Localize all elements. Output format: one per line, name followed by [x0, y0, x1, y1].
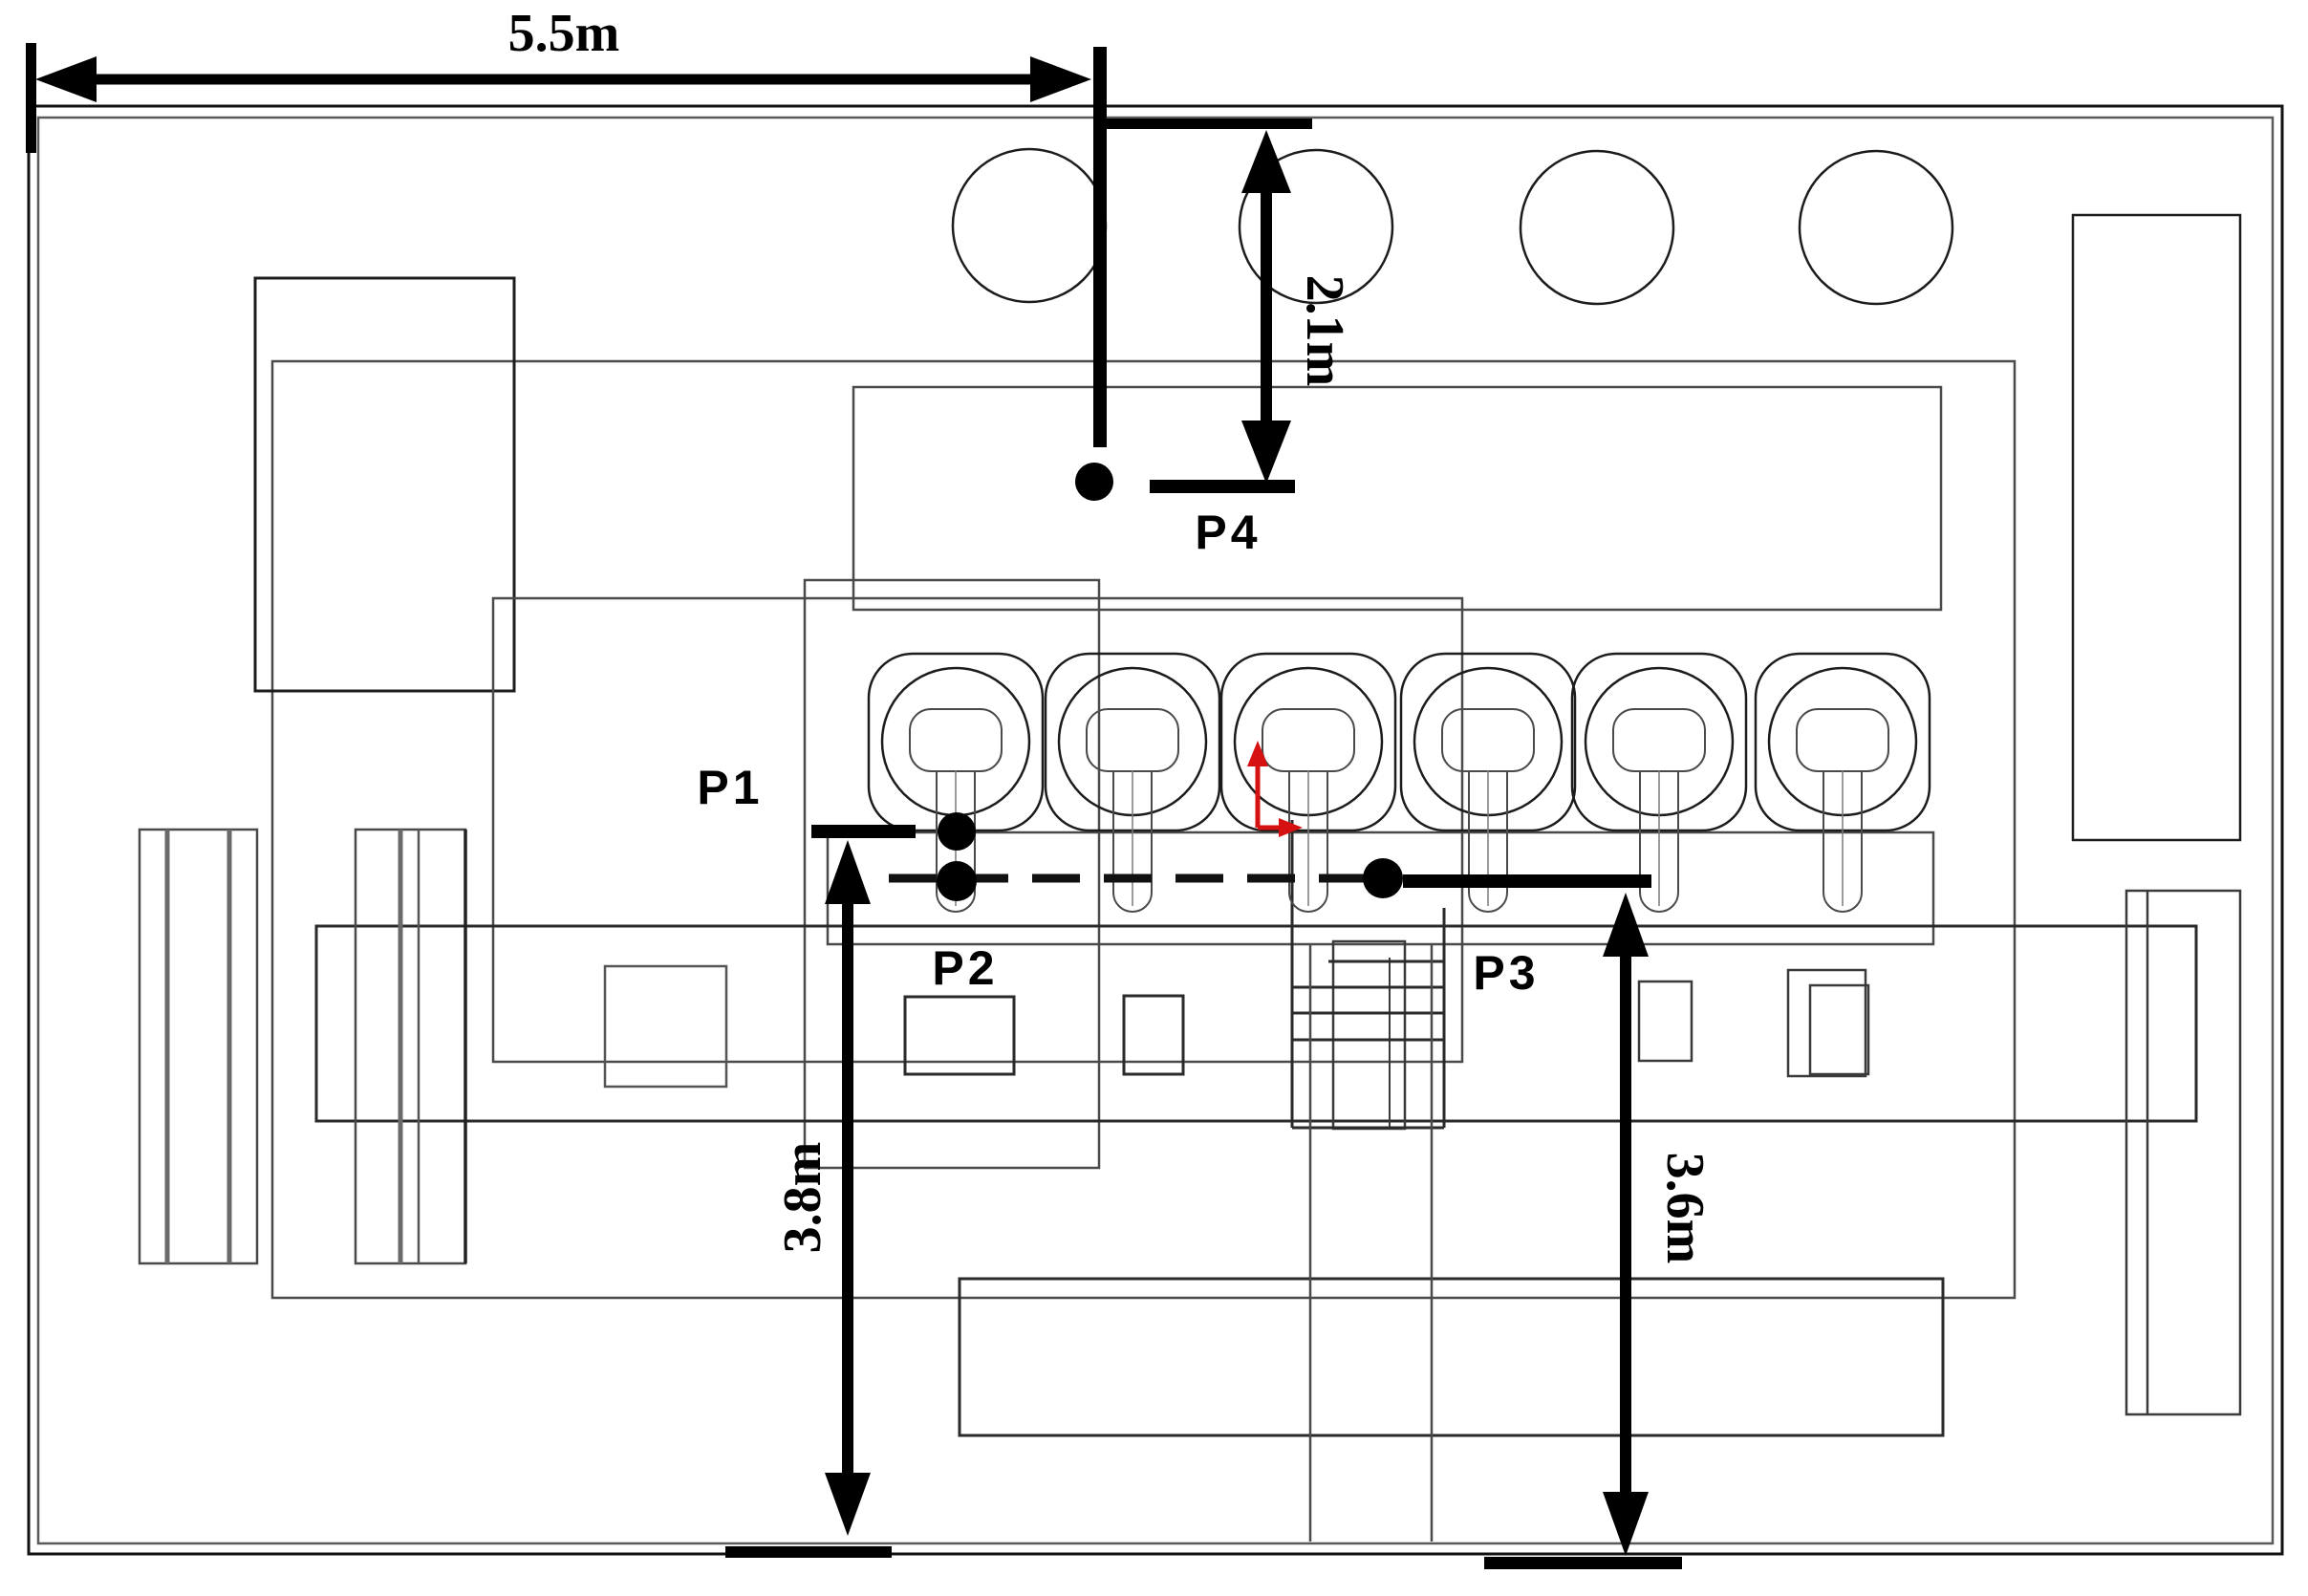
3.8m down arrowhead: [825, 1473, 871, 1536]
small square right of P2 box: [1124, 996, 1183, 1074]
room rectangle A: [272, 361, 2015, 1298]
top circle 2: [1240, 150, 1392, 303]
machinery area rectangle C: [493, 598, 1462, 1062]
top circle 4: [1800, 151, 1952, 304]
ladder structure left rail: [1291, 820, 1294, 1128]
3.6m up arrowhead: [1603, 893, 1649, 957]
striped pillar S2: [356, 830, 465, 1263]
svg-text:3.8m: 3.8m: [773, 1142, 832, 1254]
2.1m dimension line: [1261, 186, 1272, 425]
cabinet rectangle B top-left: [255, 278, 514, 691]
3.8m up arrowhead: [825, 840, 871, 904]
long vertical line v1: [1309, 944, 1312, 1542]
5.5m right arrowhead: [1030, 56, 1091, 102]
engine base band: [828, 832, 1933, 944]
5.5m left arrowhead: [35, 56, 97, 102]
3.6m dimension line: [1620, 951, 1631, 1496]
3.6m bottom bar: [1484, 1557, 1682, 1569]
ladder inner vertical: [1389, 958, 1391, 1128]
5.5m dimension line: [86, 75, 1037, 85]
point dot near P4: [1075, 463, 1113, 501]
red local axis: [1247, 741, 1303, 837]
double square right b: [1810, 985, 1868, 1074]
svg-text:5.5m: 5.5m: [508, 4, 620, 63]
ladder structure right rail: [1443, 908, 1446, 1128]
engine cylinder 5: [1572, 654, 1746, 912]
dashed center line: [889, 874, 1384, 883]
ladder rungs: [1292, 961, 1444, 1128]
svg-text:P2: P2: [932, 941, 998, 995]
point dot P3: [1363, 858, 1403, 898]
striped pillar S1: [140, 830, 257, 1263]
P2 reference bar: [811, 825, 916, 838]
long mid band rectangle J: [316, 926, 2196, 1121]
svg-text:P4: P4: [1195, 506, 1261, 559]
bottom center rectangle I: [960, 1279, 1943, 1435]
long vertical line v2: [1431, 944, 1434, 1542]
ladder structure inner: [1333, 941, 1405, 1129]
small box K1: [605, 966, 726, 1087]
rectangle H inner line: [2146, 891, 2149, 1414]
P3 reference bar: [1403, 874, 1651, 888]
engine cylinder 6: [1756, 654, 1930, 912]
5.5m dimension left tick: [26, 43, 36, 153]
2.1m top bar: [1105, 119, 1312, 129]
top circle 1: [953, 149, 1106, 302]
engine envelope rectangle E: [805, 580, 1099, 1168]
3.8m bottom bar: [725, 1546, 892, 1558]
point dot P1: [938, 812, 976, 851]
engine cylinder 1: [869, 654, 1043, 912]
svg-text:3.6m: 3.6m: [1655, 1153, 1715, 1264]
top circle 3: [1521, 151, 1673, 304]
double square right a: [1788, 970, 1866, 1076]
engine cylinder 2: [1046, 654, 1219, 912]
long top rectangle D: [853, 387, 1941, 610]
bottom right rectangle H: [2126, 891, 2240, 1414]
tall right rectangle G: [2073, 215, 2240, 840]
3.8m dimension line: [842, 898, 853, 1477]
point dot P2: [937, 861, 977, 901]
2.1m down arrowhead: [1241, 421, 1291, 484]
engine cylinder 4: [1401, 654, 1575, 912]
2.1m up arrowhead: [1241, 130, 1291, 193]
box under P2: [905, 997, 1014, 1074]
engine cylinder 3: [1221, 654, 1395, 912]
svg-text:P3: P3: [1473, 946, 1539, 1000]
small square mid right: [1639, 981, 1692, 1061]
svg-text:2.1m: 2.1m: [1295, 275, 1354, 387]
svg-text:P1: P1: [697, 761, 763, 814]
P4 reference bar: [1150, 480, 1295, 493]
3.6m down arrowhead: [1603, 1492, 1649, 1556]
5.5m extension line: [1093, 47, 1107, 447]
